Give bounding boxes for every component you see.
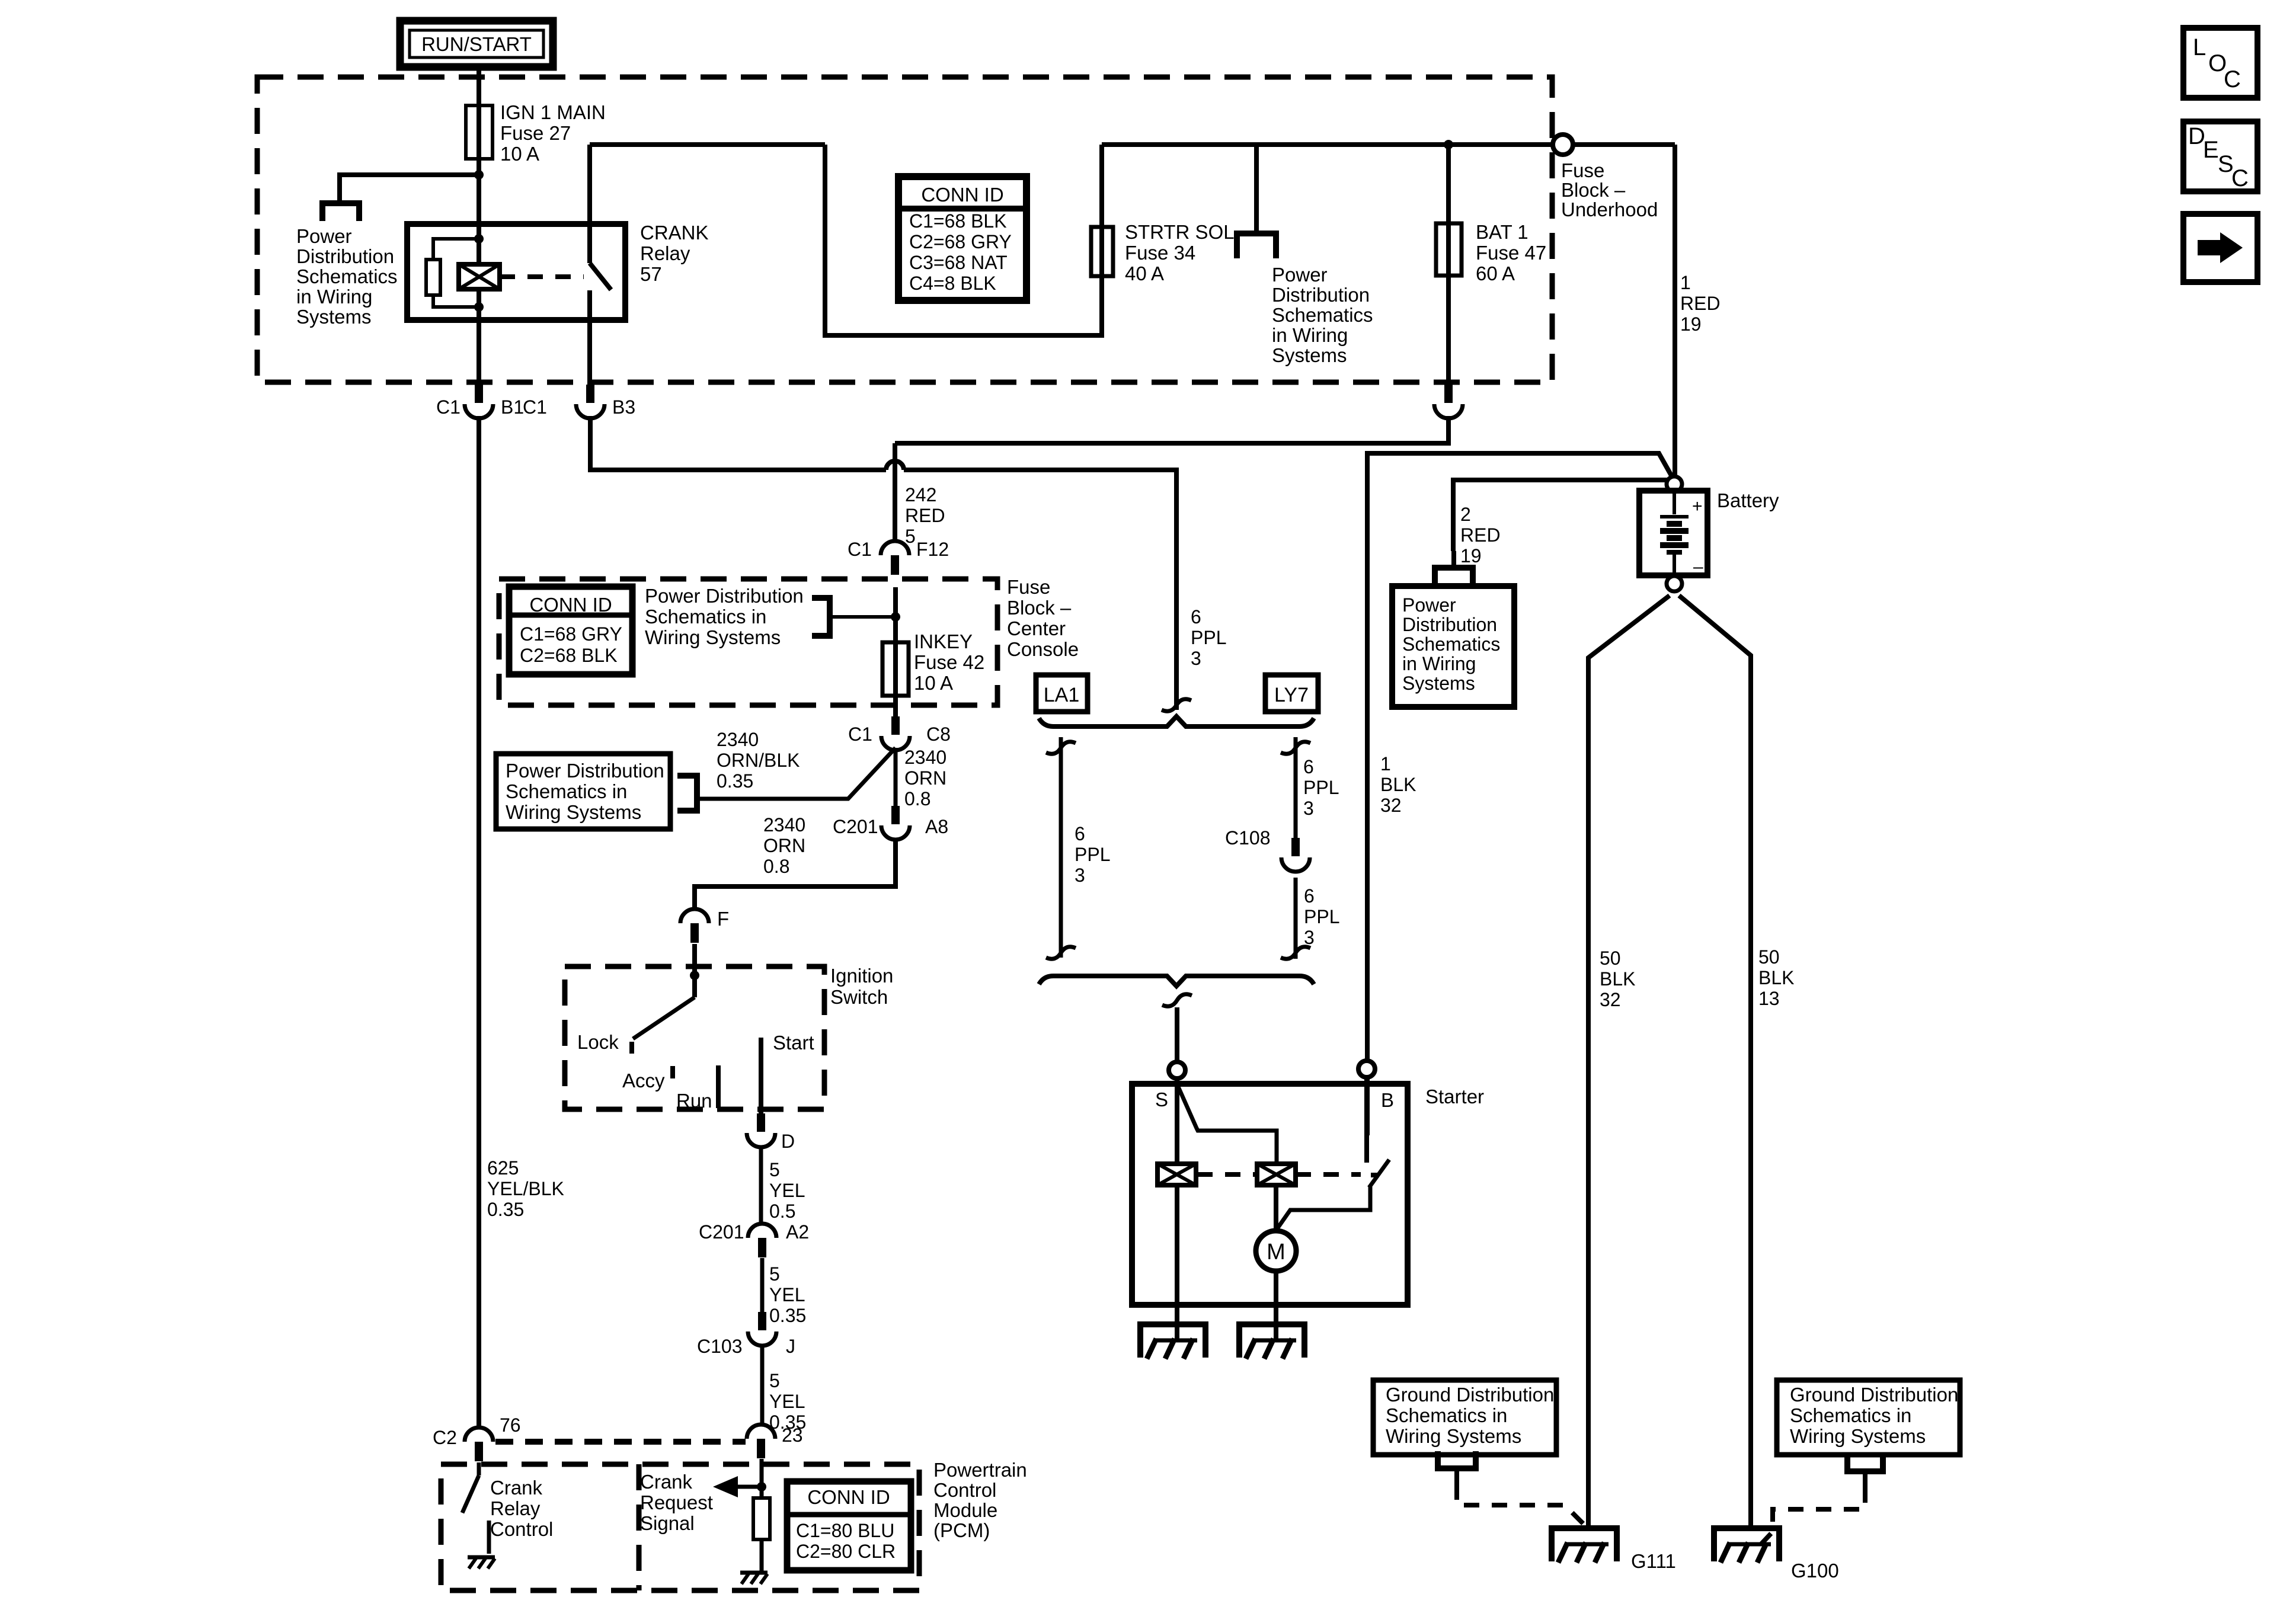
svg-text:RED: RED bbox=[1680, 293, 1721, 314]
svg-text:Powertrain: Powertrain bbox=[933, 1459, 1027, 1481]
wire winding2 to motor bbox=[1274, 1185, 1278, 1232]
connector C1 C8 bbox=[891, 716, 900, 735]
svg-text:3: 3 bbox=[1075, 865, 1085, 886]
ground starter motor bbox=[1239, 1324, 1304, 1358]
svg-text:Request: Request bbox=[640, 1491, 713, 1513]
starter box bbox=[1132, 1084, 1408, 1305]
mechanical dashed link relay bbox=[500, 274, 584, 279]
svg-text:Lock: Lock bbox=[577, 1031, 619, 1053]
fuse F27 IGN 1 MAIN bbox=[466, 105, 493, 159]
svg-text:Distribution: Distribution bbox=[296, 245, 394, 267]
ground G100 bbox=[1714, 1528, 1779, 1561]
svg-text:Systems: Systems bbox=[1272, 344, 1347, 366]
svg-text:D: D bbox=[781, 1131, 795, 1152]
svg-text:BLK: BLK bbox=[1600, 968, 1635, 990]
relay switch pole bbox=[587, 145, 592, 263]
svg-text:PPL: PPL bbox=[1191, 627, 1226, 648]
wire 2 RED 19 branch bbox=[1453, 480, 1667, 551]
svg-text:in Wiring: in Wiring bbox=[1272, 324, 1348, 346]
wire to power distribution tap bbox=[340, 175, 479, 203]
ground distribution box 2 bbox=[1777, 1380, 1960, 1455]
svg-text:2: 2 bbox=[1460, 504, 1471, 525]
svg-text:Distribution: Distribution bbox=[1272, 284, 1370, 306]
wire 1 RED 19 bbox=[1673, 145, 1677, 478]
svg-text:C1=80 BLU: C1=80 BLU bbox=[796, 1520, 894, 1541]
wire LA1 branch bbox=[1059, 737, 1063, 958]
svg-text:Run: Run bbox=[676, 1090, 712, 1112]
wire relay coil to B1 bbox=[477, 289, 481, 385]
svg-text:YEL/BLK: YEL/BLK bbox=[487, 1178, 564, 1199]
wire LY7 branch lower bbox=[1294, 878, 1298, 959]
starter main contact pole bbox=[1364, 1077, 1369, 1163]
LA1 option box bbox=[1036, 675, 1088, 712]
svg-text:RED: RED bbox=[905, 505, 945, 526]
ground starter winding bbox=[1140, 1324, 1205, 1358]
crank request arrow bbox=[735, 1485, 762, 1489]
svg-text:E: E bbox=[2203, 137, 2219, 163]
svg-text:Fuse: Fuse bbox=[1561, 159, 1604, 181]
node relay coil bottom bbox=[474, 302, 484, 312]
svg-text:Ground Distribution: Ground Distribution bbox=[1386, 1384, 1554, 1406]
svg-text:BAT 1: BAT 1 bbox=[1476, 221, 1528, 243]
brace branch bottom bbox=[1039, 976, 1314, 986]
dashed route to G111 bbox=[1457, 1484, 1586, 1526]
svg-text:19: 19 bbox=[1680, 313, 1702, 335]
svg-text:BLK: BLK bbox=[1380, 774, 1416, 795]
fuse block center console dashed box bbox=[499, 579, 997, 705]
svg-text:F: F bbox=[717, 908, 729, 930]
mechanical dashed links starter bbox=[1197, 1172, 1256, 1177]
bracket ref 5 bbox=[677, 776, 697, 811]
wire main contact to motor bbox=[1278, 1186, 1370, 1228]
svg-text:CONN ID: CONN ID bbox=[807, 1486, 890, 1508]
svg-text:Fuse 34: Fuse 34 bbox=[1125, 242, 1195, 264]
svg-text:Schematics in: Schematics in bbox=[1790, 1404, 1911, 1426]
svg-text:32: 32 bbox=[1600, 989, 1621, 1010]
start contact wire bbox=[759, 1038, 763, 1113]
svg-text:C2=80 CLR: C2=80 CLR bbox=[796, 1541, 896, 1562]
svg-text:19: 19 bbox=[1460, 545, 1482, 566]
connector pin 23 bbox=[747, 1425, 775, 1439]
svg-text:PPL: PPL bbox=[1303, 777, 1339, 798]
ground G111 bbox=[1552, 1528, 1617, 1561]
svg-text:Ignition: Ignition bbox=[830, 965, 893, 987]
wire BAT1 fuse branch bbox=[1446, 145, 1451, 385]
resistor in crank relay bbox=[426, 260, 440, 295]
svg-text:J: J bbox=[786, 1336, 795, 1357]
svg-text:C2=68 BLK: C2=68 BLK bbox=[520, 645, 618, 666]
svg-text:50: 50 bbox=[1600, 948, 1621, 969]
RUN/START box bbox=[400, 21, 553, 67]
wire fuse27 to crank relay coil bbox=[477, 175, 481, 264]
dashed connector link C2 bbox=[495, 1439, 746, 1445]
svg-text:Wiring Systems: Wiring Systems bbox=[1790, 1425, 1926, 1447]
lock contact tick bbox=[629, 1042, 634, 1054]
svg-text:2340: 2340 bbox=[717, 729, 759, 750]
svg-text:50: 50 bbox=[1758, 946, 1780, 968]
node ignition pole bbox=[690, 971, 699, 980]
svg-text:C103: C103 bbox=[697, 1336, 743, 1357]
svg-text:Systems: Systems bbox=[296, 306, 372, 328]
svg-text:LA1: LA1 bbox=[1044, 684, 1080, 706]
svg-text:Fuse 27: Fuse 27 bbox=[500, 122, 571, 144]
svg-text:IGN 1 MAIN: IGN 1 MAIN bbox=[500, 101, 606, 123]
svg-text:YEL: YEL bbox=[769, 1284, 805, 1305]
svg-text:10 A: 10 A bbox=[914, 672, 953, 694]
svg-text:C2=68 GRY: C2=68 GRY bbox=[909, 231, 1012, 252]
svg-text:C8: C8 bbox=[926, 724, 951, 745]
crank relay control switch bbox=[477, 1462, 481, 1475]
svg-text:Schematics: Schematics bbox=[1272, 304, 1373, 326]
svg-text:Start: Start bbox=[773, 1032, 814, 1054]
svg-text:Control: Control bbox=[490, 1518, 553, 1540]
wire main feed line A left bbox=[590, 142, 825, 147]
bracket ground ref 2 bbox=[1847, 1454, 1883, 1471]
svg-text:Crank: Crank bbox=[490, 1477, 543, 1499]
wire S to solenoid winding 1 bbox=[1175, 1078, 1179, 1164]
svg-text:PPL: PPL bbox=[1075, 844, 1110, 865]
wire A2 to C103 bbox=[760, 1258, 765, 1312]
svg-text:3: 3 bbox=[1191, 648, 1201, 669]
svg-text:B1: B1 bbox=[501, 396, 524, 418]
wire relay coil resistor branch bbox=[433, 239, 479, 307]
node junction above INKEY bbox=[891, 612, 900, 622]
icon LOC box bbox=[2183, 28, 2257, 98]
svg-text:Relay: Relay bbox=[490, 1497, 541, 1519]
node junction BAT1 tap bbox=[1444, 140, 1453, 149]
fuse F47 BAT 1 bbox=[1436, 223, 1462, 276]
wire orn/blk tap bbox=[697, 748, 896, 799]
svg-text:76: 76 bbox=[500, 1414, 521, 1436]
wire B3 to engine branch with crossover hump bbox=[590, 416, 886, 470]
svg-text:1: 1 bbox=[1680, 272, 1691, 293]
svg-text:Wiring Systems: Wiring Systems bbox=[506, 801, 641, 823]
connector C201 A8 bbox=[891, 806, 900, 824]
svg-text:6: 6 bbox=[1304, 885, 1315, 907]
svg-text:625: 625 bbox=[487, 1157, 519, 1179]
PCM internal divider bbox=[637, 1464, 642, 1590]
svg-text:Console: Console bbox=[1007, 638, 1079, 660]
wire branch to starter S bbox=[1175, 1007, 1179, 1062]
svg-text:Schematics in: Schematics in bbox=[506, 780, 627, 802]
svg-text:3: 3 bbox=[1303, 798, 1314, 819]
svg-text:5: 5 bbox=[769, 1370, 780, 1391]
svg-text:YEL: YEL bbox=[769, 1391, 805, 1412]
wire BAT1 output to center console feed bbox=[895, 416, 1448, 443]
svg-text:60 A: 60 A bbox=[1476, 263, 1515, 284]
svg-text:C3=68 NAT: C3=68 NAT bbox=[909, 252, 1008, 273]
svg-text:2340: 2340 bbox=[904, 747, 946, 768]
svg-text:C1=68 BLK: C1=68 BLK bbox=[909, 210, 1007, 232]
wire D to C201 A2 bbox=[759, 1145, 763, 1224]
bracket ref 4 bbox=[812, 598, 830, 636]
svg-text:Wiring Systems: Wiring Systems bbox=[645, 626, 781, 648]
svg-text:0.5: 0.5 bbox=[769, 1201, 795, 1222]
svg-text:10 A: 10 A bbox=[500, 143, 539, 165]
node crank request junction bbox=[757, 1482, 766, 1491]
svg-text:G111: G111 bbox=[1631, 1550, 1676, 1572]
svg-text:32: 32 bbox=[1380, 795, 1402, 816]
svg-text:F12: F12 bbox=[916, 539, 949, 560]
svg-text:C1=68 GRY: C1=68 GRY bbox=[520, 623, 622, 645]
svg-text:1: 1 bbox=[1380, 753, 1391, 774]
svg-text:Power Distribution: Power Distribution bbox=[645, 585, 804, 607]
battery positive terminal bbox=[1667, 476, 1682, 492]
svg-text:S: S bbox=[1155, 1089, 1168, 1110]
svg-text:C1: C1 bbox=[523, 396, 547, 418]
wire RUN/START to fuse 27 bbox=[477, 67, 481, 175]
svg-text:INKEY: INKEY bbox=[914, 630, 973, 652]
svg-text:Fuse 47: Fuse 47 bbox=[1476, 242, 1546, 264]
svg-text:242: 242 bbox=[905, 484, 936, 505]
ignition switch blade bbox=[633, 997, 695, 1039]
svg-text:6: 6 bbox=[1303, 756, 1314, 777]
svg-text:5: 5 bbox=[769, 1263, 780, 1285]
svg-text:+: + bbox=[1692, 497, 1703, 516]
resistor PCM bbox=[753, 1498, 770, 1539]
svg-text:RED: RED bbox=[1460, 524, 1501, 546]
connector F bbox=[680, 909, 709, 923]
svg-text:in Wiring: in Wiring bbox=[296, 286, 372, 308]
connector C103 J bbox=[758, 1312, 766, 1330]
battery negative terminal bbox=[1667, 576, 1682, 591]
svg-text:ORN: ORN bbox=[904, 767, 946, 789]
svg-text:2340: 2340 bbox=[763, 814, 805, 836]
wire relay switch output to B3 bbox=[587, 290, 592, 385]
svg-text:13: 13 bbox=[1758, 988, 1780, 1009]
svg-text:RUN/START: RUN/START bbox=[421, 33, 532, 55]
wire battery positive to starter B bbox=[1367, 453, 1673, 1135]
icon DESC box bbox=[2183, 121, 2257, 191]
svg-text:23: 23 bbox=[782, 1425, 803, 1446]
svg-text:C1: C1 bbox=[436, 396, 461, 418]
svg-text:Control: Control bbox=[933, 1479, 996, 1501]
svg-text:Module: Module bbox=[933, 1499, 997, 1521]
svg-text:G100: G100 bbox=[1791, 1560, 1839, 1582]
ground distribution box 1 bbox=[1373, 1380, 1556, 1455]
svg-text:Schematics: Schematics bbox=[1402, 633, 1500, 655]
svg-text:Distribution: Distribution bbox=[1402, 614, 1497, 635]
svg-text:in Wiring: in Wiring bbox=[1402, 653, 1476, 674]
svg-text:Wiring Systems: Wiring Systems bbox=[1386, 1425, 1521, 1447]
svg-text:Center: Center bbox=[1007, 617, 1066, 639]
svg-text:Block –: Block – bbox=[1007, 597, 1072, 619]
wire battery negative to G111 bbox=[1588, 596, 1670, 1528]
crank relay box bbox=[407, 224, 625, 320]
wire ref 4 to column bbox=[830, 615, 896, 619]
wire LY7 branch upper bbox=[1294, 737, 1298, 838]
connector BAT1 output bbox=[1444, 385, 1453, 403]
connector D bbox=[757, 1113, 765, 1132]
run contact tick bbox=[716, 1065, 721, 1108]
conn id box center console bbox=[509, 587, 632, 674]
wire C8 down bbox=[894, 748, 898, 806]
relay coil X symbol bbox=[459, 264, 500, 289]
wire winding1 to ground bbox=[1175, 1185, 1179, 1340]
svg-text:Signal: Signal bbox=[640, 1512, 695, 1534]
svg-text:5: 5 bbox=[769, 1159, 780, 1180]
ignition switch dashed box bbox=[565, 966, 824, 1109]
svg-text:C: C bbox=[2231, 165, 2249, 191]
connector C1 B3 bbox=[586, 385, 594, 403]
wire F12 to INKEY fuse bbox=[893, 587, 898, 716]
battery box bbox=[1639, 491, 1707, 575]
svg-text:A8: A8 bbox=[925, 816, 948, 837]
wire resistor to ground bbox=[760, 1539, 764, 1571]
svg-text:A2: A2 bbox=[786, 1221, 809, 1243]
svg-text:6: 6 bbox=[1075, 823, 1085, 844]
break squiggle top bbox=[1162, 699, 1191, 711]
svg-text:LY7: LY7 bbox=[1274, 684, 1309, 706]
node relay coil top bbox=[474, 234, 484, 244]
svg-text:BLK: BLK bbox=[1758, 967, 1794, 988]
svg-text:Ground Distribution: Ground Distribution bbox=[1790, 1384, 1958, 1406]
svg-text:Switch: Switch bbox=[830, 986, 888, 1008]
svg-text:0.35: 0.35 bbox=[487, 1199, 524, 1220]
svg-text:Fuse: Fuse bbox=[1007, 576, 1050, 598]
svg-text:ORN: ORN bbox=[763, 835, 805, 856]
svg-text:Fuse 42: Fuse 42 bbox=[914, 651, 984, 673]
connector C201 A2 bbox=[748, 1224, 776, 1238]
svg-text:C1: C1 bbox=[848, 539, 872, 560]
svg-text:57: 57 bbox=[640, 263, 662, 285]
starter S blade bbox=[1178, 1087, 1277, 1164]
starter main contact blade bbox=[1369, 1160, 1389, 1188]
bracket power distribution ref 2 bbox=[1254, 145, 1259, 233]
svg-text:C201: C201 bbox=[833, 816, 878, 837]
wire main feed line A right bbox=[1102, 142, 1675, 147]
wire conn-id loop bbox=[825, 145, 1102, 335]
svg-text:Accy: Accy bbox=[622, 1070, 665, 1092]
svg-text:B3: B3 bbox=[612, 396, 635, 418]
svg-text:C4=8 BLK: C4=8 BLK bbox=[909, 273, 996, 294]
svg-text:Power: Power bbox=[1272, 264, 1328, 286]
connector C1 F12 bbox=[881, 541, 909, 555]
svg-text:Relay: Relay bbox=[640, 242, 690, 264]
svg-text:Schematics: Schematics bbox=[296, 265, 398, 287]
box power distribution ref 3 bbox=[1392, 586, 1514, 707]
fuse F34 STRTR SOL bbox=[1091, 227, 1113, 276]
connector C108 bbox=[1291, 838, 1300, 856]
bracket power distribution ref 3 bbox=[1451, 551, 1456, 568]
svg-text:3: 3 bbox=[1304, 927, 1315, 948]
svg-text:CONN ID: CONN ID bbox=[921, 184, 1003, 206]
starter S terminal bbox=[1169, 1062, 1185, 1078]
svg-text:C108: C108 bbox=[1225, 827, 1271, 849]
starter B terminal bbox=[1358, 1061, 1375, 1077]
battery cells bbox=[1673, 491, 1676, 514]
wire A8 to ignition switch F bbox=[695, 838, 896, 909]
wire motor to ground bbox=[1274, 1271, 1278, 1340]
fuse block underhood dashed box bbox=[257, 77, 1552, 382]
svg-text:B: B bbox=[1381, 1089, 1394, 1111]
fuse F42 INKEY bbox=[882, 642, 909, 696]
svg-text:–: – bbox=[1693, 557, 1703, 577]
svg-text:Block –: Block – bbox=[1561, 179, 1626, 201]
wire battery negative to G100 bbox=[1679, 596, 1751, 1528]
svg-text:L: L bbox=[2193, 34, 2206, 60]
wire B1 long vertical bbox=[477, 416, 481, 1428]
icon arrow box bbox=[2183, 214, 2257, 282]
connector C2 pin 76 bbox=[465, 1427, 493, 1442]
ground crank relay control bbox=[468, 1555, 495, 1560]
svg-text:(PCM): (PCM) bbox=[933, 1519, 990, 1541]
conn id box underhood bbox=[898, 177, 1027, 300]
svg-text:Starter: Starter bbox=[1425, 1086, 1484, 1108]
svg-text:Schematics in: Schematics in bbox=[645, 606, 766, 628]
svg-text:0.8: 0.8 bbox=[904, 788, 930, 809]
svg-text:C2: C2 bbox=[433, 1427, 457, 1448]
relay switch blade bbox=[590, 263, 611, 290]
svg-text:Power: Power bbox=[296, 225, 352, 247]
svg-text:ORN/BLK: ORN/BLK bbox=[717, 750, 800, 771]
ground PCM resistor bbox=[740, 1571, 768, 1575]
svg-text:Underhood: Underhood bbox=[1561, 199, 1658, 220]
bracket ground ref 1 bbox=[1438, 1451, 1476, 1468]
svg-text:0.35: 0.35 bbox=[717, 770, 753, 792]
svg-text:CONN ID: CONN ID bbox=[529, 594, 612, 616]
svg-text:Crank: Crank bbox=[640, 1471, 693, 1493]
wire feed drop to C1 F12 bbox=[893, 443, 897, 541]
svg-text:C1: C1 bbox=[848, 724, 872, 745]
svg-text:STRTR SOL: STRTR SOL bbox=[1125, 221, 1235, 243]
starter solenoid winding 2 bbox=[1257, 1164, 1296, 1185]
starter motor M bbox=[1256, 1231, 1296, 1271]
PCM dashed box bbox=[441, 1464, 919, 1590]
svg-text:0.8: 0.8 bbox=[763, 856, 789, 877]
svg-text:40 A: 40 A bbox=[1125, 263, 1164, 284]
svg-text:Systems: Systems bbox=[1402, 673, 1475, 694]
svg-text:Power: Power bbox=[1402, 594, 1456, 616]
dashed route to G100 bbox=[1754, 1487, 1865, 1551]
box power distribution ref 5 bbox=[496, 754, 670, 829]
wire F into ignition switch bbox=[692, 944, 697, 997]
LY7 option box bbox=[1265, 675, 1318, 712]
svg-text:5: 5 bbox=[905, 526, 916, 547]
svg-text:C: C bbox=[2224, 66, 2241, 92]
accy contact tick bbox=[670, 1066, 675, 1078]
node junction below fuse 27 bbox=[474, 170, 484, 180]
svg-text:0.35: 0.35 bbox=[769, 1305, 806, 1326]
terminal circle fuse block underhood bbox=[1553, 135, 1573, 155]
wire 23 to resistor bbox=[760, 1459, 764, 1498]
svg-text:C201: C201 bbox=[699, 1221, 744, 1243]
svg-text:CRANK: CRANK bbox=[640, 222, 709, 244]
svg-text:Battery: Battery bbox=[1717, 489, 1779, 511]
conn id box PCM bbox=[787, 1481, 911, 1570]
svg-text:YEL: YEL bbox=[769, 1180, 805, 1201]
connector C1 B1 bbox=[475, 385, 483, 403]
svg-text:Power Distribution: Power Distribution bbox=[506, 760, 664, 782]
svg-text:6: 6 bbox=[1191, 606, 1201, 628]
wire C103 to PCM 23 bbox=[760, 1344, 765, 1425]
svg-text:PPL: PPL bbox=[1304, 906, 1339, 927]
svg-text:M: M bbox=[1267, 1240, 1285, 1265]
brace branch top bbox=[1039, 716, 1314, 726]
bracket power distribution ref 1 bbox=[322, 203, 359, 221]
svg-text:Schematics in: Schematics in bbox=[1386, 1404, 1507, 1426]
